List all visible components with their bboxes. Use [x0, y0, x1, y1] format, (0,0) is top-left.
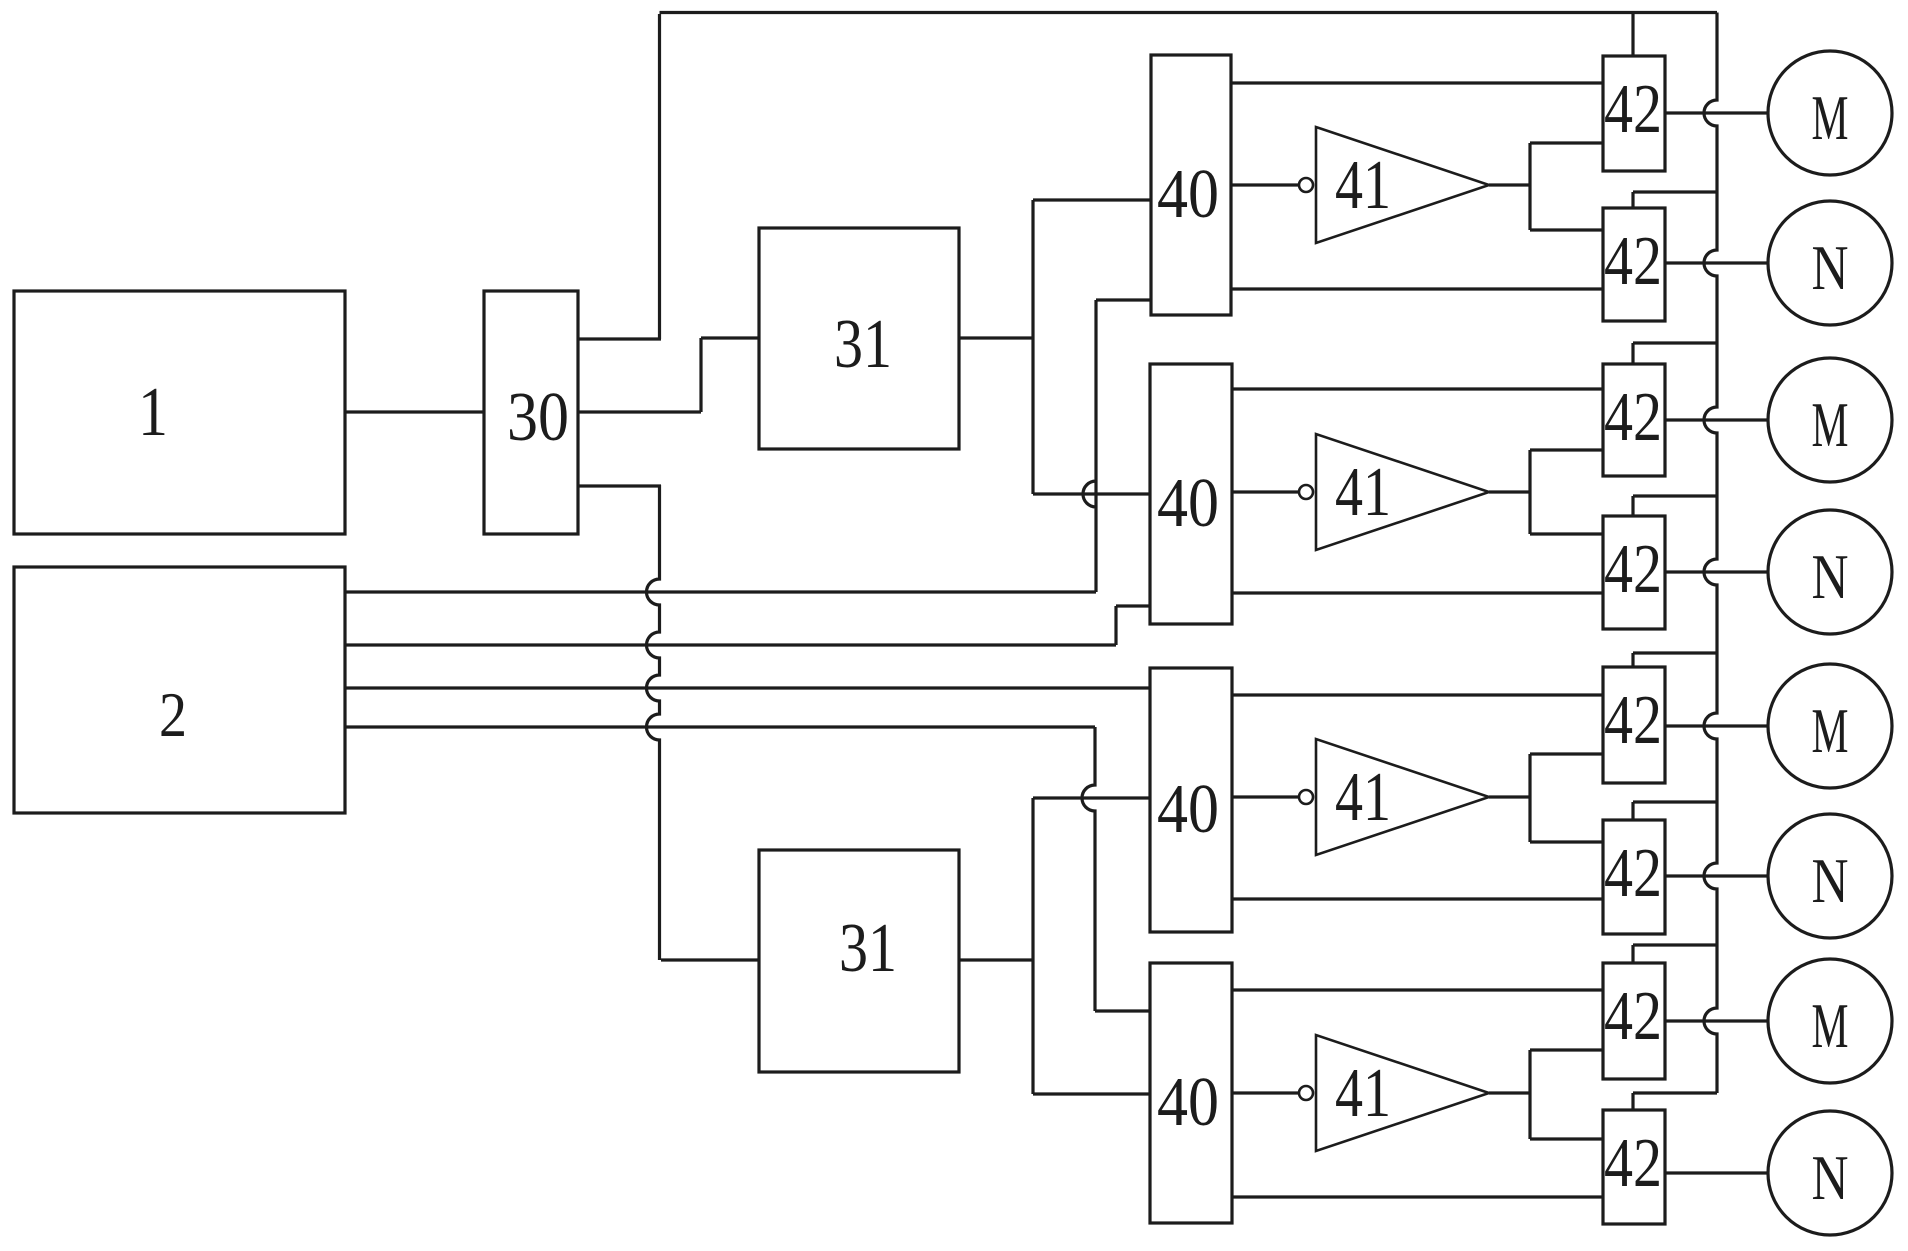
wire branch lower into 42: [1530, 1137, 1603, 1140]
wire riser x1116: [1114, 606, 1117, 645]
block 40 #3: [1150, 668, 1232, 932]
motor M #3: [1768, 664, 1892, 788]
wire 40 #4 top out to 42: [1231, 988, 1603, 991]
svg-text:M: M: [1812, 390, 1849, 460]
motor N #4: [1768, 1111, 1892, 1235]
wire 31 lower out: [959, 958, 1034, 961]
wire 40 #1 mid out to 41: [1231, 183, 1299, 186]
wire 42 #8 stub to rail: [1633, 1091, 1717, 1094]
wire into 31 upper: [701, 336, 759, 339]
wire 42 #8 out to motor: [1665, 1171, 1768, 1174]
wire riser x1095 with hop: [1082, 727, 1095, 1011]
inverter bubble 41 #1: [1299, 178, 1313, 192]
svg-text:42: 42: [1604, 379, 1662, 456]
wire 42 #5 out to motor: [1665, 724, 1768, 727]
wire 40 #2 mid out to 41: [1231, 490, 1299, 493]
block 42 #6: [1603, 820, 1665, 934]
motor N #1: [1768, 201, 1892, 325]
svg-text:42: 42: [1604, 531, 1662, 608]
wire riser x1096 with hop: [1083, 300, 1096, 592]
wire 40 #4 bottom out to 42: [1231, 1195, 1603, 1198]
wire 40 #3 mid out to 41: [1231, 795, 1299, 798]
wire 42 #2 top stub: [1631, 192, 1634, 208]
wire 41 #2 out: [1489, 490, 1530, 493]
motor M #4: [1768, 959, 1892, 1083]
block 42 #3: [1603, 364, 1665, 476]
block 40 #1: [1151, 55, 1231, 315]
wire 42 #6 stub to rail: [1633, 800, 1717, 803]
wire 40 #4 mid out to 41: [1231, 1091, 1299, 1094]
svg-text:N: N: [1812, 846, 1849, 916]
wire 2 line d: [345, 725, 1095, 728]
block 42 #5: [1603, 667, 1665, 783]
svg-text:2: 2: [159, 679, 187, 750]
wire bus x1033 upper: [1031, 200, 1034, 494]
wire 2 line c into 40 #3: [345, 686, 1150, 689]
wire 1 to 30: [345, 410, 484, 413]
svg-text:41: 41: [1335, 759, 1391, 836]
wire branch lower into 42: [1530, 840, 1603, 843]
wire riser x661 down with hops: [647, 485, 660, 960]
inverter bubble 41 #2: [1299, 485, 1313, 499]
wire 42 #7 stub to rail: [1633, 943, 1717, 946]
wire 42 #4 out to motor: [1665, 570, 1768, 573]
wire 40 #2 top out to 42: [1231, 387, 1603, 390]
motor N #3: [1768, 814, 1892, 938]
wire branch upper into 42: [1530, 448, 1603, 451]
wire 40 #1 bottom out to 42: [1231, 287, 1603, 290]
wire into 40 #2 input A: [1033, 492, 1150, 495]
wire 41 #4 out: [1489, 1091, 1530, 1094]
wire 41 #1 out: [1489, 183, 1530, 186]
wire 42 #5 top stub: [1631, 653, 1634, 667]
svg-text:30: 30: [507, 379, 569, 456]
wire 42 #4 top stub: [1631, 496, 1634, 516]
block 42 #7: [1603, 963, 1665, 1079]
inverter bubble 41 #3: [1299, 790, 1313, 804]
wire riser x661 up: [658, 14, 661, 339]
wire branch upper into 42: [1530, 141, 1603, 144]
wire 41 #3 out: [1489, 795, 1530, 798]
wire 42 #6 out to motor: [1665, 874, 1768, 877]
wire right rail with hops: [1704, 13, 1717, 1094]
svg-text:40: 40: [1157, 156, 1219, 233]
block 31 (lower): [759, 850, 959, 1072]
wire 30 out A: [578, 337, 661, 340]
wire branch vertical pair 2: [1528, 450, 1531, 534]
svg-text:42: 42: [1604, 71, 1662, 148]
wire branch vertical pair 1: [1528, 143, 1531, 230]
wire 42 #3 out to motor: [1665, 418, 1768, 421]
wire top rail: [660, 11, 1718, 14]
wire 42 #2 stub to rail: [1633, 190, 1717, 193]
wire 2 line a: [345, 590, 1096, 593]
wire 40 #1 top out to 42: [1231, 81, 1603, 84]
svg-text:42: 42: [1604, 835, 1662, 912]
svg-text:31: 31: [834, 306, 892, 383]
svg-text:42: 42: [1604, 223, 1662, 300]
block 31 (upper): [759, 228, 959, 449]
wire bus x1033 lower: [1031, 798, 1034, 1094]
wire riser x701: [699, 338, 702, 412]
wire 42 #1 out to motor: [1665, 111, 1768, 114]
wire 42 #8 top stub: [1631, 1093, 1634, 1110]
wire 40 #3 bottom out to 42: [1231, 897, 1603, 900]
wire branch lower into 42: [1530, 228, 1603, 231]
wire 42 #1 top stub: [1631, 13, 1634, 57]
svg-text:40: 40: [1157, 465, 1219, 542]
wire branch vertical pair 4: [1528, 1050, 1531, 1139]
wire into 40 #3 input A: [1033, 796, 1150, 799]
wire 42 #2 out to motor: [1665, 261, 1768, 264]
motor M #2: [1768, 358, 1892, 482]
svg-text:42: 42: [1604, 978, 1662, 1055]
block 2 (driver unit): [14, 567, 345, 813]
svg-text:M: M: [1812, 991, 1849, 1061]
wire into 40 #4 input A: [1033, 1092, 1150, 1095]
wire branch lower into 42: [1530, 532, 1603, 535]
block 1 (controller): [14, 291, 345, 534]
wire 40 #3 top out to 42: [1231, 693, 1603, 696]
wire 42 #6 top stub: [1631, 802, 1634, 820]
wire into 31 lower: [661, 958, 759, 961]
wire into 40 #1 input B: [1096, 298, 1151, 301]
buffer 41 #2: [1316, 434, 1489, 550]
buffer 41 #4: [1316, 1035, 1489, 1151]
wire 40 #2 bottom out to 42: [1231, 591, 1603, 594]
wire 42 #7 out to motor: [1665, 1019, 1768, 1022]
wire branch vertical pair 3: [1528, 754, 1531, 842]
svg-text:40: 40: [1157, 771, 1219, 848]
block 40 #2: [1150, 364, 1232, 624]
buffer 41 #1: [1316, 127, 1489, 243]
block 42 #1: [1603, 56, 1665, 171]
svg-text:N: N: [1812, 233, 1849, 303]
wire 30 out C: [578, 484, 661, 487]
wire 31 upper out: [959, 336, 1034, 339]
svg-text:M: M: [1812, 696, 1849, 766]
block 42 #2: [1603, 208, 1665, 321]
svg-text:42: 42: [1604, 682, 1662, 759]
wire branch upper into 42: [1530, 752, 1603, 755]
wire 42 #7 top stub: [1631, 945, 1634, 963]
block 42 #4: [1603, 516, 1665, 629]
svg-text:N: N: [1812, 542, 1849, 612]
wire 42 #5 stub to rail: [1633, 651, 1717, 654]
wire 2 line b: [345, 643, 1116, 646]
svg-text:41: 41: [1335, 454, 1391, 531]
svg-text:42: 42: [1604, 1125, 1662, 1202]
svg-text:40: 40: [1157, 1064, 1219, 1141]
svg-text:N: N: [1812, 1143, 1849, 1213]
svg-text:41: 41: [1335, 1055, 1391, 1132]
svg-text:31: 31: [839, 910, 897, 987]
motor M #1: [1768, 51, 1892, 175]
wire 42 #3 stub to rail: [1633, 341, 1717, 344]
wire into 40 #4 input B: [1095, 1009, 1150, 1012]
buffer 41 #3: [1316, 739, 1489, 855]
wire into 40 #2 input B: [1116, 604, 1150, 607]
wire branch upper into 42: [1530, 1048, 1603, 1051]
wire 42 #4 stub to rail: [1633, 494, 1717, 497]
svg-text:41: 41: [1335, 147, 1391, 224]
block 42 #8: [1603, 1110, 1665, 1224]
wire into 40 #1 input A: [1033, 198, 1151, 201]
block 30: [484, 291, 578, 534]
inverter bubble 41 #4: [1299, 1086, 1313, 1100]
svg-text:M: M: [1812, 83, 1849, 153]
wire 30 out B: [578, 410, 701, 413]
block 40 #4: [1150, 963, 1232, 1223]
wire 42 #3 top stub: [1631, 343, 1634, 364]
motor N #2: [1768, 510, 1892, 634]
svg-text:1: 1: [138, 374, 168, 451]
